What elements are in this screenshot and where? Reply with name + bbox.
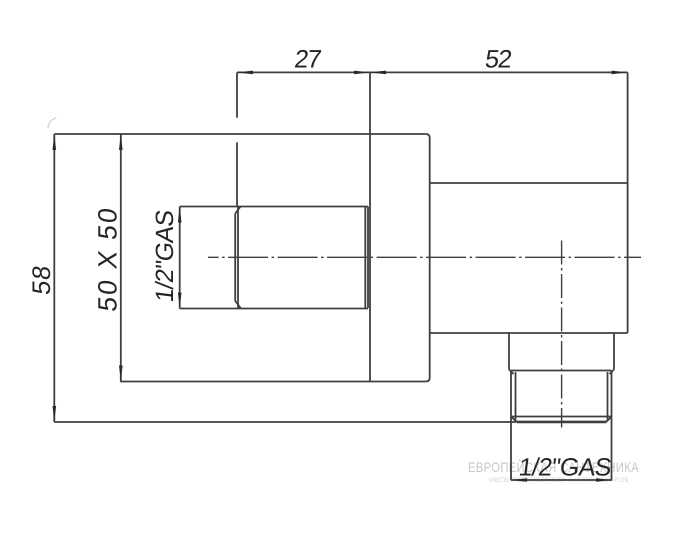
- arrow 52 right: [612, 71, 628, 75]
- dim 58 line: [53, 134, 55, 422]
- svg-text:1/2"GAS: 1/2"GAS: [151, 209, 179, 304]
- body bottom edge: [430, 332, 628, 334]
- svg-text:50 X 50: 50 X 50: [93, 204, 123, 313]
- nipple crest right (continues as extension line to bottom dim): [611, 371, 613, 481]
- left threaded port: end chamfer top: [235, 206, 241, 213]
- left threaded port: root runout line: [364, 206, 366, 309]
- flange right edge with rounded corners: [426, 134, 430, 382]
- arrow 50 up: [119, 134, 123, 150]
- dimension texts: [28, 46, 612, 482]
- dim 50 line: [120, 134, 122, 382]
- faint corner arc watermark: [48, 118, 56, 128]
- arrow 52 left: [370, 71, 386, 75]
- nipple root left: [515, 372, 517, 421]
- dim line 27/52: [237, 71, 628, 73]
- svg-text:27: 27: [293, 46, 322, 74]
- nipple end chamfer right: [607, 417, 612, 422]
- nipple bottom face (thick): [517, 421, 607, 424]
- arrow 58 up: [53, 134, 57, 150]
- left threaded port: end chamfer bottom: [235, 301, 241, 308]
- body top edge: [430, 182, 628, 184]
- nipple shank right: [613, 333, 615, 370]
- nipple end chamfer left: [511, 417, 517, 422]
- body right edge (plus extension up to dim line): [627, 72, 629, 333]
- arrow 58 down: [53, 406, 57, 422]
- extension line x=237 upper segment: [236, 72, 238, 117]
- dim 1/2GAS left line: [179, 207, 181, 309]
- nipple shank chamfer left: [509, 370, 514, 375]
- flange back face: [369, 72, 371, 381]
- arrow bottom dim right: [596, 478, 612, 482]
- arrow 1/2GAS up: [178, 207, 182, 223]
- svg-text:52: 52: [483, 46, 512, 74]
- left threaded port: crest bottom: [180, 308, 368, 310]
- arrow 27 left: [237, 71, 253, 75]
- arrow bottom dim left: [511, 478, 527, 482]
- svg-text:58: 58: [28, 263, 56, 296]
- centerline vertical (nipple axis): [561, 241, 563, 428]
- arrowheads: [53, 71, 628, 482]
- extension line x=237 lower segment: [236, 142, 238, 206]
- left threaded port: end face: [234, 214, 236, 302]
- left threaded port: crest top: [180, 206, 368, 208]
- nipple shank chamfer right: [610, 370, 615, 375]
- centerline horizontal (left port axis): [208, 256, 641, 258]
- nipple shank left: [508, 333, 510, 370]
- left threaded port: runout second line: [367, 207, 369, 309]
- watermark line 1: [468, 459, 639, 475]
- svg-text:1/2"GAS: 1/2"GAS: [517, 453, 613, 481]
- flange top edge: [54, 133, 425, 135]
- nipple root right: [607, 372, 609, 421]
- nipple thread start: [511, 370, 612, 372]
- arrow 50 down: [119, 366, 123, 382]
- arrow 27 right: [354, 71, 370, 75]
- nipple thread end: [511, 416, 612, 418]
- bottom extension line y=422: [54, 421, 516, 423]
- dim 1/2GAS bottom line: [511, 479, 612, 481]
- left threaded port: thread start vertical: [237, 206, 239, 309]
- nipple crest left (continues as extension line to bottom dim): [510, 371, 512, 481]
- watermark line 2: [489, 478, 628, 484]
- arrow 1/2GAS down: [178, 293, 182, 309]
- flange bottom edge: [120, 381, 426, 383]
